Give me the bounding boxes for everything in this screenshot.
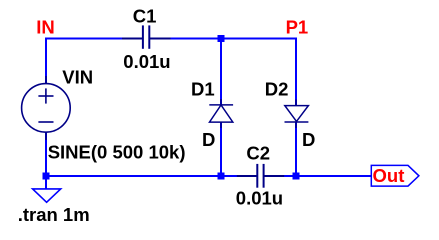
capacitor C1 <box>122 25 171 48</box>
wire: D1 anode down to bottom junction <box>220 122 222 176</box>
svg-text:D: D <box>202 129 215 150</box>
svg-text:0.01u: 0.01u <box>236 188 283 209</box>
wire bottom left: ground junction to C2 left plate <box>46 175 257 177</box>
svg-text:D1: D1 <box>191 79 215 100</box>
svg-text:.tran 1m: .tran 1m <box>18 204 90 225</box>
port Out shape <box>371 165 419 186</box>
svg-text:0.01u: 0.01u <box>123 51 170 72</box>
node junction at C1/D1 top <box>218 35 225 42</box>
svg-text:C2: C2 <box>246 142 270 163</box>
wire: P1 corner down to D2 anode <box>295 38 297 106</box>
node junction at VIN/ground <box>43 173 50 180</box>
svg-text:P1: P1 <box>286 16 309 37</box>
svg-text:D2: D2 <box>265 79 289 100</box>
wire top: IN corner to C1 left plate <box>45 38 143 40</box>
svg-text:C1: C1 <box>133 5 157 26</box>
wire: VIN bottom to ground junction <box>45 132 47 177</box>
diode D2 <box>285 100 309 129</box>
voltage source VIN <box>22 76 71 140</box>
node junction at D1 bottom <box>218 173 225 180</box>
node junction at D2 bottom <box>293 173 300 180</box>
wire: D2 cathode down to bottom junction <box>295 122 297 176</box>
wire: junction down to D1 cathode <box>220 39 222 106</box>
capacitor C2 <box>237 164 284 188</box>
svg-text:VIN: VIN <box>62 66 93 87</box>
wire: ground stub <box>45 176 47 189</box>
svg-text:SINE(0 500 10k): SINE(0 500 10k) <box>48 142 186 163</box>
svg-text:D: D <box>302 129 315 150</box>
svg-text:Out: Out <box>373 165 405 186</box>
diode D1 <box>209 99 233 128</box>
ground <box>33 189 61 202</box>
svg-text:IN: IN <box>36 17 55 38</box>
wire bottom right: C2 right plate to Out port <box>264 175 372 177</box>
wire top: C1 right plate to P1 corner <box>149 38 297 40</box>
wire: IN vertical down to VIN top <box>45 38 47 85</box>
